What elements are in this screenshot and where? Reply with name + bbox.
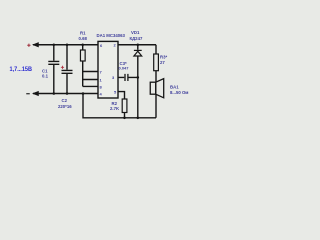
capacitor C3 — [125, 74, 128, 81]
svg-text:C1: C1 — [42, 69, 48, 74]
wire C3 leads — [118, 76, 138, 79]
svg-text:КД247: КД247 — [130, 36, 143, 41]
wire VD1 vertical — [136, 45, 139, 118]
wire R1 leads and pin bus — [83, 45, 98, 87]
minus sign — [26, 93, 30, 95]
svg-text:DA1 MC34063: DA1 MC34063 — [97, 33, 126, 38]
plus sign (red) — [27, 44, 30, 47]
node ground rail VD1 junction — [137, 117, 140, 120]
node minus rail C2 junction — [66, 92, 69, 95]
plus mark of C2 (red) — [61, 66, 64, 69]
wire ground drop — [83, 94, 156, 118]
op-amp U1: IC DA1 MC34063 body — [98, 41, 118, 98]
svg-text:2.7K: 2.7K — [110, 106, 120, 111]
node top rail C1 junction — [53, 43, 56, 46]
node ground rail R2 junction — [123, 117, 126, 120]
svg-text:27: 27 — [160, 60, 165, 65]
svg-text:VD1: VD1 — [131, 30, 140, 35]
svg-text:8...50 Ом: 8...50 Ом — [170, 90, 188, 95]
node top rail C2 junction — [66, 43, 69, 46]
wire top rail — [33, 43, 98, 46]
resistor R3 — [154, 54, 159, 71]
svg-text:R2: R2 — [112, 101, 118, 106]
capacitor C2 (polarized) — [62, 70, 73, 73]
node minus rail drop junction — [82, 92, 85, 95]
input arrow minus terminal — [32, 91, 39, 96]
svg-text:0.68: 0.68 — [79, 36, 88, 41]
capacitor C1 — [48, 61, 59, 64]
diode VD1 — [134, 50, 142, 56]
resistor R1 — [80, 50, 85, 61]
wire R3 to speaker to ground — [155, 45, 158, 118]
svg-text:C2: C2 — [62, 98, 68, 103]
wire C1 vertical — [52, 45, 55, 94]
svg-text:1,7...15B: 1,7...15B — [10, 67, 33, 73]
svg-text:0.1: 0.1 — [42, 74, 49, 79]
wire minus rail — [33, 92, 98, 95]
node top rail R1 junction — [81, 43, 84, 46]
speaker BA1 — [150, 79, 163, 98]
node VD1 top junction — [137, 43, 140, 46]
svg-text:R1: R1 — [80, 31, 86, 36]
node minus rail C1 junction — [53, 92, 56, 95]
resistor R2 — [122, 99, 127, 113]
input arrow plus terminal — [32, 42, 39, 47]
node C3 VD1 wire junction — [137, 76, 140, 79]
svg-text:220*16: 220*16 — [58, 104, 72, 109]
wire pin2 run to R3 — [118, 43, 156, 46]
wire R2 leads — [118, 92, 125, 118]
svg-text:BA1: BA1 — [170, 85, 179, 90]
svg-text:R3*: R3* — [160, 55, 167, 60]
wire C2 vertical — [66, 45, 69, 94]
svg-text:0.047: 0.047 — [119, 66, 130, 71]
